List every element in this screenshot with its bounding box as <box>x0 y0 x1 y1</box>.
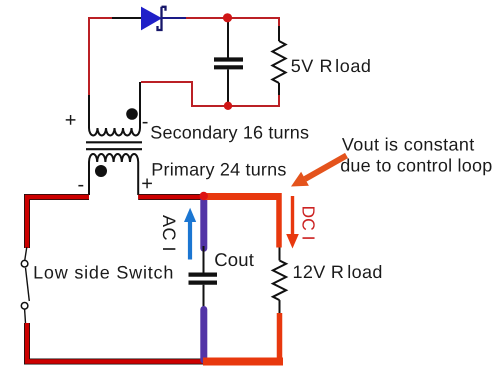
svg-text:-: - <box>142 111 149 133</box>
transformer T1 primary winding <box>89 154 138 162</box>
label Vout is constant <box>342 135 475 155</box>
wire secondary right lead <box>139 82 141 128</box>
label Primary 24 turns <box>151 159 286 179</box>
label due to control loop <box>340 156 492 176</box>
svg-text:Secondary 16 turns: Secondary 16 turns <box>150 122 309 142</box>
capacitor Cout bottom stem <box>203 285 205 311</box>
wire 12V loop top orange <box>203 193 279 248</box>
arrow AC current (blue, up) <box>184 208 196 260</box>
wire diode anode black segment <box>112 17 142 19</box>
svg-text:12V Rload: 12V Rload <box>293 262 383 282</box>
label AC I (rotated) <box>159 215 179 252</box>
svg-text:Primary 24 turns: Primary 24 turns <box>151 159 286 179</box>
wire primary loop lower-left (black outline) <box>27 323 204 362</box>
switch S1 low side <box>21 247 29 323</box>
diode D1 (schottky) <box>142 7 166 30</box>
label primary minus <box>78 174 85 196</box>
wire secondary top-left red segment <box>89 18 112 95</box>
resistor R1 5V Rload <box>272 26 285 95</box>
wire Cout lower purple segment <box>200 310 207 361</box>
wire diode cathode navy segment <box>161 17 186 19</box>
svg-text:Cout: Cout <box>214 249 254 270</box>
svg-text:5V Rload: 5V Rload <box>291 56 372 76</box>
capacitor Cout top stem <box>203 246 205 273</box>
wire primary right lead <box>137 162 139 195</box>
label 5V Rload <box>291 56 372 76</box>
capacitor C1 top stem <box>227 18 229 58</box>
svg-text:AC I: AC I <box>159 215 179 252</box>
wire primary loop upper-left (black outline) <box>27 197 89 248</box>
transformer T1 primary phasing dot <box>95 165 107 177</box>
svg-text:Low side Switch: Low side Switch <box>33 262 174 282</box>
capacitor Cout plates <box>189 275 218 283</box>
resistor R2 12V Rload <box>273 248 286 314</box>
capacitor C1 plates <box>214 60 243 68</box>
wire primary loop top-right segment <box>138 194 203 200</box>
arrow DC current (red, down) <box>286 196 299 249</box>
svg-text:due to control loop: due to control loop <box>340 156 492 176</box>
node Vout junction <box>200 192 208 200</box>
label Low side Switch <box>33 262 174 282</box>
arrow Vout annotation (orange) <box>291 156 347 187</box>
svg-text:DC I: DC I <box>299 206 319 241</box>
transformer T1 core lines <box>86 142 142 149</box>
label primary plus <box>141 173 153 195</box>
label secondary minus <box>142 111 149 133</box>
transformer T1 secondary phasing dot <box>126 108 138 120</box>
svg-text:+: + <box>65 110 77 132</box>
label DC I (rotated red) <box>299 206 319 241</box>
label secondary plus <box>65 110 77 132</box>
node junction dot top <box>223 13 232 22</box>
wire 5V loop bottom red <box>141 82 279 106</box>
wire 12V loop bottom orange <box>203 313 283 362</box>
label Secondary 16 turns <box>150 122 309 142</box>
label Cout <box>214 249 254 270</box>
wire primary left lead <box>88 162 90 195</box>
transformer T1 secondary winding <box>89 128 140 136</box>
svg-text:-: - <box>78 174 85 196</box>
label 12V Rload <box>293 262 383 282</box>
node junction dot bottom of C1 <box>224 102 232 110</box>
wire Cout upper purple segment <box>200 197 207 248</box>
wire secondary left lead black segment <box>88 95 90 128</box>
capacitor C1 bottom stem <box>227 70 229 106</box>
wire top red to corner <box>186 18 279 26</box>
svg-text:Vout is constant: Vout is constant <box>342 135 475 155</box>
